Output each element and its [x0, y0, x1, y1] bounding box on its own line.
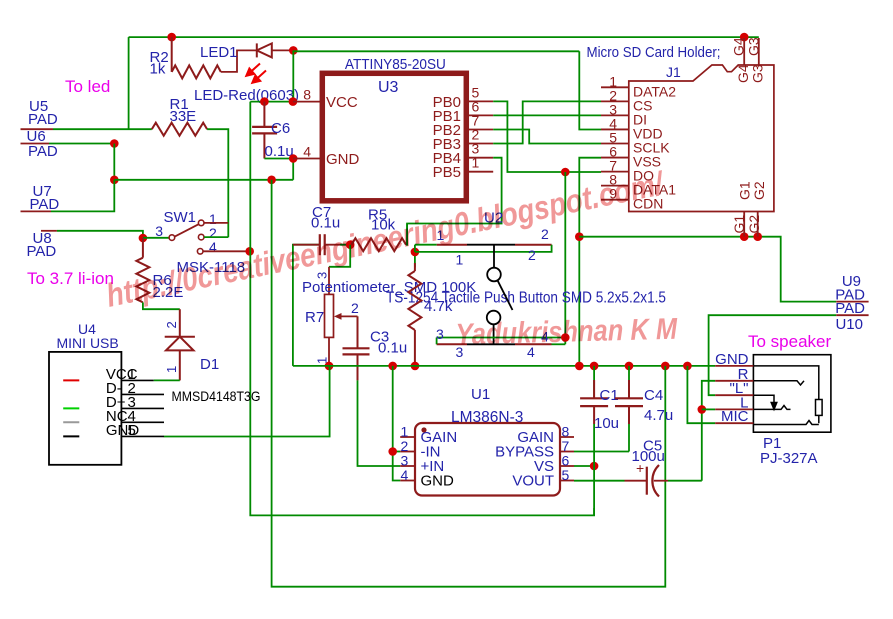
capacitor C3 [343, 316, 370, 380]
wire VDD drop to J1 VDD pin [579, 51, 601, 129]
svg-text:PJ-327A: PJ-327A [760, 450, 818, 467]
U1 pin 6 VS [560, 465, 574, 467]
svg-text:G2: G2 [751, 181, 767, 200]
svg-text:LED1: LED1 [200, 44, 238, 61]
J1 pin 3 DI [601, 114, 629, 116]
junction top rail / J1 G4 [740, 33, 749, 42]
wire to L pin [702, 408, 715, 410]
svg-text:VOUT: VOUT [512, 473, 554, 490]
junction rail/VSS [575, 362, 584, 371]
wire U5 row to R1 [53, 128, 152, 130]
svg-text:G1: G1 [731, 215, 747, 234]
U3 GND pin stub [293, 158, 320, 160]
J1 pin 7 DO [601, 171, 629, 173]
wire LED to VCC pin row [292, 50, 294, 101]
capacitor C7 [320, 234, 325, 255]
potentiometer R7 body [325, 294, 334, 337]
U1 pin 7 BYPASS [560, 451, 574, 453]
wire pot pin3 jog [329, 245, 350, 267]
svg-text:To 3.7 li-ion: To 3.7 li-ion [27, 269, 114, 288]
U4 pin 4 NC [121, 421, 164, 423]
svg-text:10u: 10u [594, 415, 619, 432]
J1 pin 2 CS [601, 100, 629, 102]
svg-text:33E: 33E [170, 108, 197, 125]
junction G2 [753, 232, 762, 241]
U4 D+ color dash [63, 407, 79, 409]
svg-text:G3: G3 [750, 64, 766, 83]
wire GND riser to U3 GND pin [292, 159, 294, 180]
resistor R5 [352, 238, 407, 251]
wire pot wiper to C3 [357, 316, 359, 345]
junction L row [698, 405, 707, 414]
P1 pin L [715, 408, 753, 410]
junction C6 top [260, 97, 269, 106]
junction U2 pin4 / DO drop [561, 333, 570, 342]
svg-text:LM386N-3: LM386N-3 [451, 409, 523, 426]
wire C3 to U1 +IN [358, 380, 401, 466]
svg-text:8: 8 [303, 87, 311, 103]
wire rail to U1 GND and -IN [393, 366, 401, 481]
R7 wiper arrow pin 2 [334, 313, 358, 320]
svg-text:PAD: PAD [28, 143, 58, 160]
junction 4.7k top / U2 pin1 wrap [411, 248, 420, 257]
svg-text:U3: U3 [378, 79, 399, 96]
junction C7/R5/pot [346, 240, 355, 249]
svg-text:GND: GND [326, 151, 360, 168]
wire GND row to chip [114, 179, 293, 181]
U4 pin 5 GND [121, 435, 164, 437]
svg-text:4: 4 [303, 144, 311, 160]
U3 VCC pin stub [293, 101, 321, 103]
svg-text:To speaker: To speaker [748, 332, 831, 351]
resistor R1 [152, 123, 207, 136]
svg-text:3: 3 [155, 223, 163, 239]
P1 pin "L" [715, 394, 753, 396]
svg-text:4: 4 [209, 239, 217, 255]
junction VSS / G1G2 row [575, 232, 584, 241]
svg-text:G3: G3 [746, 37, 762, 56]
pot pin3 lead [328, 267, 330, 295]
wire PB3 to J1 CS [493, 101, 601, 143]
J1 pin 5 SCLK [601, 143, 629, 145]
wire BYPASS to C4 [574, 451, 629, 453]
svg-text:4.7u: 4.7u [644, 407, 673, 424]
svg-text:1: 1 [472, 155, 480, 171]
svg-text:U1: U1 [471, 386, 490, 403]
U1 pin 2 -IN [400, 451, 415, 453]
junction rail/bottom loop [661, 362, 670, 371]
J1 pin G2 bottom [757, 212, 759, 237]
svg-text:0.1u: 0.1u [378, 340, 407, 357]
J1 pin 8 DATA1 [601, 185, 629, 187]
junction pot pin1 / USB gnd riser on rail [325, 362, 334, 371]
node U5 pad stub [21, 128, 54, 130]
J1 pin 1 DATA2 [601, 86, 629, 88]
svg-text:R7: R7 [305, 309, 324, 326]
wire MIC drop [687, 366, 715, 423]
svg-text:MMSD4148T3G: MMSD4148T3G [172, 388, 261, 404]
wire VCC row [250, 101, 293, 103]
svg-text:C6: C6 [271, 120, 290, 137]
IC U1 LM386N-3 body [415, 423, 560, 496]
capacitor C5 electrolytic [625, 465, 702, 497]
wire U10 pad to quote-L pin [709, 315, 837, 395]
svg-text:4: 4 [401, 467, 409, 483]
svg-text:C1: C1 [600, 387, 619, 404]
junction SW1 pin4 / VCC drop [245, 247, 254, 256]
LED1 emission arrows [246, 64, 266, 83]
node U8 pad stub [41, 230, 57, 232]
junction rail/MIC drop [683, 362, 692, 371]
svg-text:GND: GND [421, 473, 455, 490]
junction U8 / R6 / SW1-3 [139, 234, 148, 243]
svg-text:ATTINY85-20SU: ATTINY85-20SU [345, 56, 446, 73]
junction rail/U1-gnd [388, 362, 397, 371]
J1 pin G4 top [743, 38, 745, 65]
junction -IN [388, 447, 397, 456]
svg-text:C4: C4 [644, 387, 663, 404]
P1 pin GND [715, 365, 753, 367]
node U6 pad stub [21, 143, 50, 145]
svg-text:J1: J1 [666, 64, 681, 80]
diode D1 MMSD4148T3G [165, 309, 195, 380]
wire R1 to SW1 throw column [207, 129, 228, 237]
wire PB0 to J1 DO [493, 101, 601, 172]
svg-text:5: 5 [562, 467, 570, 483]
wire R5 right end up to PB4 row [406, 224, 407, 245]
wire VCC top rail [129, 36, 759, 38]
svg-text:1: 1 [164, 366, 179, 373]
U4 pin 3 D+ [121, 407, 164, 409]
junction GND pin [289, 154, 298, 163]
wire U2 drop from DO row [564, 172, 566, 344]
junction VS / C1 [590, 462, 599, 471]
junction G1 [740, 232, 749, 241]
resistor R2 [171, 37, 173, 72]
svg-text:D1: D1 [200, 356, 219, 373]
svg-text:U10: U10 [835, 316, 863, 333]
capacitor C4 [615, 366, 643, 452]
U1 pin 3 +IN [400, 465, 415, 467]
J1 pin 9 CDN [601, 199, 629, 201]
wire to SW1 pin3 [143, 237, 169, 239]
junction VCC pin [289, 97, 298, 106]
wire USB GND riser [164, 366, 330, 437]
U1 pin 5 VOUT [560, 480, 574, 482]
P1 pin R [715, 380, 753, 382]
node U7 pad stub [21, 210, 52, 212]
svg-text:+: + [636, 460, 644, 476]
IC U3 ATTINY85-20SU body [322, 73, 466, 201]
U1 pin1 marker dot [421, 427, 426, 432]
junction rail/C1 [590, 362, 599, 371]
U4 VCC color dash [63, 379, 79, 381]
J1 pin G3 top [758, 38, 760, 65]
U4 GND color dash [63, 435, 79, 437]
svg-text:PAD: PAD [27, 243, 57, 260]
J1 pin G1 bottom [743, 212, 745, 237]
wire SW1 pin2 to R1 column [204, 236, 228, 238]
junction U6 [110, 139, 119, 148]
LED LED1 [257, 43, 294, 57]
switch SW1 [169, 220, 204, 254]
svg-text:3: 3 [436, 326, 444, 342]
junction top rail / R2 [167, 33, 176, 42]
svg-text:2: 2 [528, 247, 536, 263]
svg-text:2: 2 [541, 226, 549, 242]
junction U6/U7 tie [110, 176, 119, 185]
wire C7 left / pot box left column [293, 245, 320, 366]
pushbutton U2 [415, 245, 565, 345]
junction DO / U2 drop [561, 168, 570, 177]
wire U8 row to SW1 common [57, 231, 143, 238]
connector U4 MINI USB body [49, 352, 121, 465]
wire VOUT to C5 [574, 480, 625, 482]
pot pin1 lead [328, 337, 330, 366]
svg-text:0.1u: 0.1u [311, 215, 340, 232]
resistor R6 [142, 238, 144, 258]
svg-text:VCC: VCC [326, 94, 358, 111]
wire G1 G2 row to U9 pad [579, 237, 836, 302]
capacitor C1 [580, 366, 608, 516]
U1 pin 1 GAIN [400, 436, 415, 438]
J1 pin 6 VSS [601, 157, 629, 159]
resistor R8 4.7k [414, 252, 416, 268]
svg-text:MINI USB: MINI USB [57, 335, 119, 351]
wire U6 row [49, 143, 114, 145]
wire SW1 pin1 to R1 column [204, 222, 228, 224]
wire jack R/L column [702, 381, 715, 481]
wire C6 bottom to GND pin [264, 158, 293, 160]
P1 internal contacts [753, 366, 822, 425]
wire main ground rail [293, 365, 715, 367]
svg-text:SW1: SW1 [164, 209, 197, 226]
svg-text:MIC: MIC [721, 408, 749, 425]
U1 pin 4 GND [400, 480, 415, 482]
junction LED / VCC riser [289, 46, 298, 55]
U4 pin 2 D- [121, 393, 164, 395]
U4 NC color dash [63, 421, 79, 423]
U4 pin 1 VCC [121, 379, 153, 381]
svg-text:4.7k: 4.7k [424, 298, 453, 315]
wire bottom return loop [272, 180, 666, 587]
wire VSS column [579, 158, 601, 366]
svg-text:PAD: PAD [30, 196, 60, 213]
svg-text:Micro SD Card Holder;: Micro SD Card Holder; [587, 44, 721, 61]
svg-text:PAD: PAD [28, 111, 58, 128]
J1 pin 4 VDD [601, 128, 629, 130]
svg-text:1: 1 [456, 252, 464, 268]
wire C7 to R5 [325, 244, 351, 246]
wire R6 to D1 [143, 302, 180, 309]
wire D1 to USB VCC pin [154, 379, 180, 381]
wire U7 row and up [51, 180, 114, 212]
junction rail/C4 [625, 362, 634, 371]
svg-text:G4: G4 [731, 37, 747, 56]
wire VCC drop column (C6 row to power switch to bottom) [250, 102, 594, 516]
wire VS to C1 column [574, 465, 594, 467]
connector J1 Micro SD Card Holder body [629, 65, 774, 212]
svg-text:1k: 1k [150, 61, 166, 78]
wire PB4 to R5/U2 [407, 158, 502, 245]
wire PB2 to J1 SCLK [493, 130, 601, 144]
junction GND drop [267, 176, 276, 185]
svg-text:3: 3 [315, 272, 330, 279]
wire LED row to VDD drop [293, 50, 579, 52]
svg-text:To led: To led [65, 77, 110, 96]
wire R2 to LED1 [221, 50, 257, 72]
wire top-rail drop to U5 row [128, 37, 130, 129]
wire PB1 to J1 DI [493, 114, 601, 116]
svg-text:G2: G2 [746, 215, 762, 234]
connector P1 PJ-327A body [753, 355, 831, 433]
svg-text:PB5: PB5 [433, 164, 461, 181]
svg-text:5: 5 [128, 422, 136, 439]
wire U6 down to U7 tie [113, 144, 115, 180]
svg-text:2: 2 [351, 300, 359, 316]
wire SW1 pin4 to VCC drop [203, 250, 250, 252]
svg-text:Yadukrishnan K M: Yadukrishnan K M [455, 312, 678, 351]
svg-text:2: 2 [164, 321, 179, 328]
capacitor C6 [252, 102, 277, 159]
U1 pin 8 GAIN [560, 436, 574, 438]
P1 pin MIC [715, 422, 753, 424]
junction 4.7k bottom on rail [411, 362, 420, 371]
